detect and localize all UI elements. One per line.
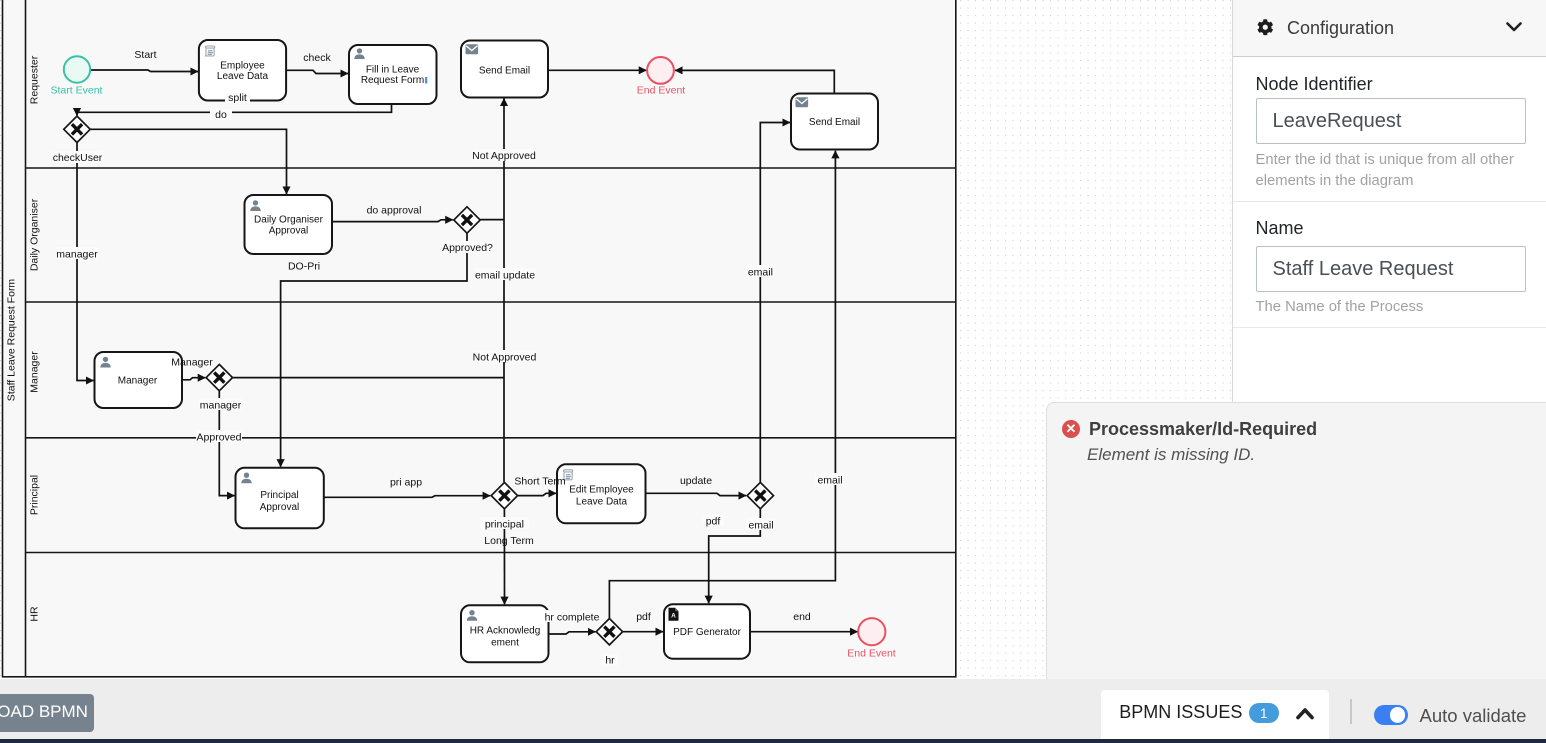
svg-text:HR Acknowledg: HR Acknowledg xyxy=(470,626,541,637)
wire Not Approved: manager gateway -> vertical xyxy=(233,377,504,379)
svg-text:Principal: Principal xyxy=(29,475,41,515)
config header xyxy=(1233,0,1546,57)
svg-text:Request Form: Request Form xyxy=(361,75,424,86)
svg-text:do approval: do approval xyxy=(367,205,422,217)
canvas background with grid dots xyxy=(0,0,1232,679)
svg-text:Start: Start xyxy=(134,49,156,61)
svg-text:DO-Pri: DO-Pri xyxy=(288,261,320,273)
svg-text:checkUser: checkUser xyxy=(53,152,103,164)
wire pdf: email gateway -> PDF Generator xyxy=(709,509,761,603)
wire update: Edit Employee Leave Data -> email gateway xyxy=(646,493,746,495)
svg-text:hr: hr xyxy=(605,655,615,667)
wire do: Fill in Leave Request Form -> checkUser gateway xyxy=(77,101,392,116)
task HR Acknowledgement xyxy=(461,605,549,662)
pool Staff Leave Request Form xyxy=(3,0,956,677)
wire hr complete: HR Acknowledgement -> hr gateway xyxy=(549,632,596,634)
svg-text:check: check xyxy=(303,52,331,64)
auto validate toggle xyxy=(1374,705,1409,725)
svg-text:pdf: pdf xyxy=(636,611,651,623)
divider xyxy=(1350,699,1352,724)
svg-text:Send Email: Send Email xyxy=(809,117,860,128)
svg-text:End Event: End Event xyxy=(847,648,896,660)
gateway manager xyxy=(206,364,232,390)
task Employee Leave Data xyxy=(199,40,286,101)
chevron down xyxy=(1506,22,1522,33)
svg-text:End Event: End Event xyxy=(637,85,686,97)
gateway email xyxy=(747,482,773,508)
svg-text:HR: HR xyxy=(29,606,41,622)
wire Not Approved vertical -> Send Email 1 xyxy=(503,99,505,483)
task Fill in Leave Request Form xyxy=(349,45,437,104)
task Principal Approval xyxy=(236,468,324,529)
svg-text:pdf: pdf xyxy=(706,516,721,528)
gateway hr xyxy=(596,619,622,645)
download bpmn button (clipped at left) xyxy=(0,694,94,732)
task Daily Organiser Approval xyxy=(245,195,333,254)
svg-text:Start Event: Start Event xyxy=(51,85,103,97)
svg-text:Leave Data: Leave Data xyxy=(217,71,269,82)
pool / lane labels (rotated) xyxy=(6,55,41,621)
wire checkUser -> Daily Organiser Approval xyxy=(90,129,286,194)
task Edit Employee Leave Data xyxy=(557,464,646,523)
svg-text:email: email xyxy=(748,520,773,532)
svg-text:PDF Generator: PDF Generator xyxy=(673,627,741,638)
task texts xyxy=(118,61,860,649)
gateway checkUser xyxy=(64,116,90,142)
gateway principal xyxy=(491,482,517,508)
svg-text:Edit Employee: Edit Employee xyxy=(569,485,634,496)
svg-text:email update: email update xyxy=(475,270,535,282)
gear icon xyxy=(1257,19,1274,36)
wire Send Email 2 top -> End Event 1 xyxy=(675,70,834,93)
svg-text:hr complete: hr complete xyxy=(545,612,600,624)
wire do approval: Daily Organiser Approval -> Approved? xyxy=(332,220,453,222)
svg-text:Short Term: Short Term xyxy=(514,476,565,488)
svg-text:split: split xyxy=(228,92,247,104)
start event Start Event xyxy=(64,56,90,82)
svg-text:Manager: Manager xyxy=(118,376,158,387)
svg-text:email: email xyxy=(748,267,773,279)
svg-text:manager: manager xyxy=(200,400,242,412)
svg-text:Manager: Manager xyxy=(29,351,41,393)
wire Approved? gateway right -> vertical join xyxy=(480,219,504,221)
svg-text:Approval: Approval xyxy=(260,502,299,513)
task Send Email 1 xyxy=(461,41,548,98)
task PDF Generator xyxy=(664,604,750,659)
wire email update: Approved? -> Principal Approval xyxy=(281,233,467,466)
end event End Event 2 xyxy=(858,618,885,645)
wire Short Term: principal gateway -> Edit Employee Leave Data xyxy=(518,493,556,495)
lane separators xyxy=(26,167,956,169)
svg-text:ement: ement xyxy=(491,638,519,649)
svg-text:end: end xyxy=(793,611,811,623)
wire end: PDF Generator -> End Event 2 xyxy=(750,631,858,633)
task Manager xyxy=(95,352,183,408)
svg-text:email: email xyxy=(817,475,842,487)
gateway Approved? xyxy=(454,207,480,233)
svg-text:manager: manager xyxy=(56,249,98,261)
svg-text:Daily Organiser: Daily Organiser xyxy=(29,198,41,271)
wire Manager task -> manager gateway xyxy=(182,378,206,380)
node caret artifact xyxy=(425,77,427,84)
svg-text:Employee: Employee xyxy=(220,61,265,72)
wire Approved: manager gateway -> Principal Approval xyxy=(219,391,234,496)
bpmn issues button xyxy=(1101,690,1329,739)
svg-text:Approved: Approved xyxy=(197,432,242,444)
svg-text:Not Approved: Not Approved xyxy=(472,150,536,162)
wire email: hr gateway -> Send Email 2 bottom xyxy=(609,151,835,619)
svg-text:update: update xyxy=(680,475,712,487)
svg-text:Approval: Approval xyxy=(269,226,308,237)
svg-text:Daily Organiser: Daily Organiser xyxy=(254,215,324,226)
svg-text:Not Approved: Not Approved xyxy=(473,352,537,364)
wire Send Email 1 -> End Event 1 xyxy=(548,69,646,71)
svg-text:Principal: Principal xyxy=(260,490,298,501)
error icon xyxy=(1062,420,1080,438)
svg-text:pri app: pri app xyxy=(390,477,422,489)
wire email: email gateway -> Send Email 2 left xyxy=(760,123,790,483)
task icons xyxy=(205,46,215,56)
svg-text:Leave Data: Leave Data xyxy=(576,497,628,508)
svg-text:principal: principal xyxy=(485,519,524,531)
svg-text:do: do xyxy=(215,109,227,121)
task Send Email 2 xyxy=(791,94,878,150)
wire Long Term: principal gateway -> HR Acknowledgement xyxy=(503,509,505,604)
wire pdf: hr gateway -> PDF Generator xyxy=(623,631,663,633)
wire check: Employee Leave Data -> Fill in Leave Request Form xyxy=(287,70,349,73)
end event End Event 1 xyxy=(647,57,674,84)
wire Start -> Employee Leave Data xyxy=(91,70,199,72)
svg-text:Manager: Manager xyxy=(171,357,213,369)
svg-text:Long Term: Long Term xyxy=(484,535,534,547)
svg-text:Requester: Requester xyxy=(29,55,41,104)
svg-text:Staff Leave Request Form: Staff Leave Request Form xyxy=(6,279,18,402)
wire manager: checkUser -> Manager task xyxy=(77,143,94,381)
svg-text:Fill in Leave: Fill in Leave xyxy=(366,65,420,76)
svg-text:Send Email: Send Email xyxy=(479,66,530,77)
svg-text:Approved?: Approved? xyxy=(442,242,493,254)
wire pri app: Principal Approval -> principal gateway xyxy=(324,496,490,498)
